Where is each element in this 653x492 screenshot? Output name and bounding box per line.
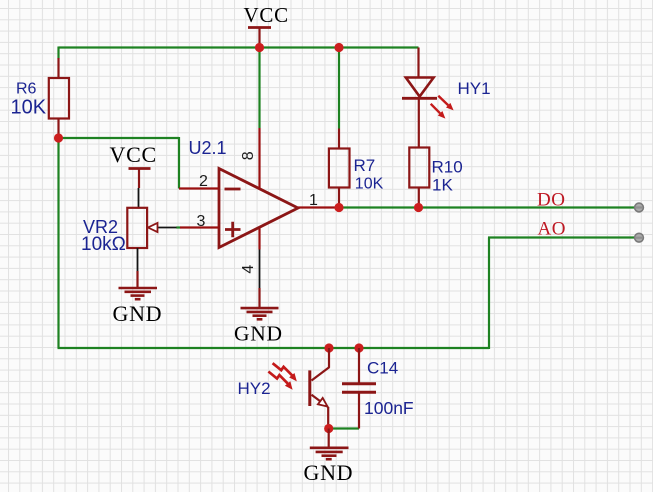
label 10K (R6)	[11, 96, 47, 118]
pin 8 lead	[258, 128, 260, 189]
svg-text:100nF: 100nF	[364, 398, 414, 418]
svg-text:8: 8	[240, 151, 257, 160]
svg-text:R6: R6	[16, 80, 37, 97]
wire pin8 supply	[258, 48, 260, 129]
resistor R10	[409, 148, 429, 208]
label R10	[432, 157, 463, 176]
ground GND under HY2	[304, 429, 354, 485]
wire inverting input drop	[178, 137, 180, 189]
wire C14 bottom link	[329, 427, 359, 429]
wire left vertical	[57, 138, 59, 348]
svg-text:1: 1	[309, 192, 318, 209]
svg-text:R10: R10	[432, 157, 463, 176]
svg-text:4: 4	[240, 265, 257, 274]
VCC symbol top	[244, 3, 289, 48]
svg-text:GND: GND	[234, 322, 283, 346]
terminal DO	[635, 203, 644, 212]
label R7	[354, 156, 376, 175]
wire R7 top	[338, 48, 340, 129]
svg-text:HY1: HY1	[458, 79, 491, 98]
svg-text:1K: 1K	[432, 175, 453, 194]
svg-text:3: 3	[197, 213, 206, 230]
wire AO riser	[488, 238, 490, 350]
svg-text:2: 2	[199, 173, 208, 190]
svg-text:AO: AO	[538, 219, 566, 240]
terminal AO	[635, 233, 644, 242]
LED HY1	[402, 48, 454, 148]
ground GND under VR2	[113, 271, 163, 326]
resistor R7	[329, 129, 350, 208]
phototransistor HY2	[268, 348, 329, 429]
svg-text:GND: GND	[113, 301, 163, 326]
pin 2 number	[199, 173, 208, 190]
svg-text:U2.1: U2.1	[189, 138, 227, 158]
wire AO horizontal	[488, 236, 635, 238]
wire inverting input horizontal	[59, 137, 180, 139]
pin 4 lead	[258, 229, 260, 289]
pin 4 number	[240, 265, 257, 274]
wire top VCC rail	[59, 46, 419, 48]
junction HY2 emitter / C14	[324, 424, 333, 433]
VCC symbol at VR2	[110, 142, 157, 188]
junction bottom rail / C14	[354, 343, 363, 352]
capacitor C14	[342, 348, 376, 429]
label C14	[367, 359, 398, 378]
svg-text:C14: C14	[367, 359, 398, 378]
label 100nF (C14)	[364, 398, 414, 418]
wire bottom rail	[58, 347, 490, 349]
pin 3 lead	[180, 226, 219, 228]
wire pin3 stub	[176, 226, 180, 228]
resistor R6	[49, 58, 69, 138]
junction R6 bottom node	[54, 133, 63, 142]
label HY2	[238, 379, 271, 398]
potentiometer VR2	[127, 188, 176, 271]
svg-text:VCC: VCC	[110, 142, 157, 167]
junction bottom rail / HY2	[324, 343, 333, 352]
pin 1 output lead	[298, 206, 339, 208]
svg-text:10kΩ: 10kΩ	[81, 234, 126, 255]
wire R6 top stub	[57, 47, 59, 59]
label 10K (R7)	[355, 176, 384, 193]
label HY1	[458, 79, 491, 98]
junction VCC rail / pin8	[255, 43, 264, 52]
svg-text:10K: 10K	[11, 96, 47, 118]
ground GND under pin 4	[234, 288, 283, 346]
svg-text:GND: GND	[304, 460, 354, 485]
junction DO / R10	[414, 203, 423, 212]
label R6	[16, 80, 37, 97]
pin 2 lead	[179, 187, 219, 189]
label VR2	[83, 217, 118, 237]
junction DO / R7	[334, 203, 343, 212]
pin 8 number	[240, 151, 257, 160]
svg-text:HY2: HY2	[238, 379, 271, 398]
svg-text:R7: R7	[354, 156, 376, 175]
svg-text:10K: 10K	[355, 176, 384, 193]
svg-text:VCC: VCC	[244, 3, 289, 27]
junction VCC rail / R7	[334, 43, 343, 52]
wire DO line	[339, 206, 635, 208]
pin 1 number	[309, 192, 318, 209]
label U2.1	[189, 138, 227, 158]
label 1K (R10)	[432, 175, 453, 194]
label 10kΩ (VR2)	[81, 234, 126, 255]
op-amp U2.1	[219, 169, 298, 248]
pin 3 number	[197, 213, 206, 230]
port DO label	[537, 190, 565, 211]
port AO label	[538, 219, 566, 240]
svg-text:DO: DO	[537, 190, 565, 211]
